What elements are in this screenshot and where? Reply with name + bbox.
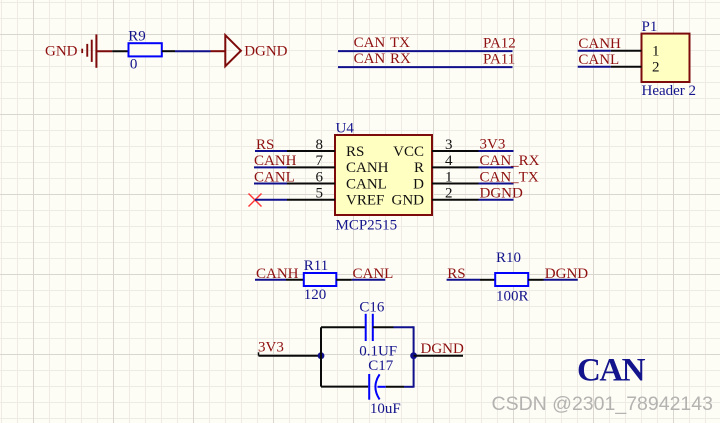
value 10uF	[370, 401, 401, 417]
net label 3V3	[480, 137, 506, 153]
net label CANL	[353, 266, 394, 282]
wire	[373, 326, 394, 328]
pin 7 of U4	[287, 153, 335, 169]
svg-text:CANH: CANH	[346, 160, 389, 176]
pin name VREF	[346, 193, 384, 209]
op-amp U1 body (U4 MCP2515)	[335, 135, 432, 215]
svg-text:2: 2	[445, 186, 453, 202]
svg-text:R9: R9	[128, 28, 146, 44]
wire	[352, 279, 386, 281]
svg-text:10uF: 10uF	[370, 401, 401, 417]
svg-text:CANL: CANL	[578, 52, 619, 68]
svg-text:DGND: DGND	[244, 44, 287, 60]
label C17	[368, 358, 394, 374]
svg-text:PA12: PA12	[483, 35, 516, 51]
pin name R	[414, 160, 424, 176]
svg-text:120: 120	[304, 287, 327, 303]
power port GND	[45, 34, 112, 67]
net label CANH	[256, 266, 299, 282]
svg-text:1: 1	[445, 169, 453, 185]
wire	[255, 279, 286, 281]
pin name VCC	[393, 144, 424, 160]
svg-text:5: 5	[316, 186, 324, 202]
svg-text:CAN: CAN	[354, 35, 386, 51]
label R10	[496, 250, 521, 266]
svg-text:CANL: CANL	[346, 177, 387, 193]
net label DGND	[480, 185, 523, 201]
pin 2 of P1	[611, 59, 660, 75]
pin name CANH	[346, 160, 389, 176]
svg-text:DGND: DGND	[480, 185, 523, 201]
net label CANH	[578, 36, 621, 52]
svg-text:VCC: VCC	[393, 144, 424, 160]
resistor R1 pin left (R9)	[112, 50, 128, 52]
svg-text:R10: R10	[496, 250, 521, 266]
net label RS	[447, 266, 465, 282]
svg-text:6: 6	[316, 169, 324, 185]
svg-text:3V3: 3V3	[480, 137, 506, 153]
svg-text:2: 2	[652, 59, 660, 75]
svg-text:VREF: VREF	[346, 193, 384, 209]
svg-text:RS: RS	[346, 144, 364, 160]
label U4	[336, 121, 355, 137]
pin 4 of U4	[432, 153, 479, 169]
value 0	[130, 57, 138, 73]
net label CAN_TX	[354, 35, 411, 51]
svg-text:C17: C17	[368, 358, 394, 374]
wire	[394, 326, 414, 328]
wire CAN_RX	[338, 66, 513, 68]
svg-text:CANL: CANL	[353, 266, 394, 282]
svg-text:CAN: CAN	[577, 353, 646, 389]
svg-text:Header 2: Header 2	[642, 83, 697, 99]
svg-text:CAN: CAN	[354, 51, 386, 67]
wire	[544, 279, 578, 281]
power port DGND	[211, 35, 288, 66]
svg-text:R: R	[414, 160, 424, 176]
capacitor C16	[366, 314, 373, 341]
connector P1	[642, 34, 690, 82]
wire	[479, 199, 514, 201]
wire	[479, 183, 514, 185]
svg-text:TX: TX	[390, 35, 410, 51]
wire	[447, 279, 480, 281]
resistor R11	[304, 273, 337, 286]
watermark	[492, 393, 713, 415]
wire	[255, 150, 287, 152]
pin name GND	[392, 193, 425, 209]
svg-text:CAN_RX: CAN_RX	[480, 153, 540, 169]
pin 8 of U4	[287, 137, 335, 153]
net label CAN_RX	[354, 51, 411, 67]
svg-text:GND: GND	[45, 44, 78, 60]
resistor R11 pin left	[286, 279, 304, 281]
wire	[175, 50, 211, 52]
wire	[479, 150, 514, 152]
svg-text:R11: R11	[304, 258, 328, 274]
net label PA11	[483, 51, 515, 67]
svg-text:DGND: DGND	[421, 341, 464, 357]
pin 6 of U4	[287, 169, 335, 185]
svg-text:C16: C16	[359, 299, 385, 315]
svg-text:CANH: CANH	[578, 36, 621, 52]
svg-text:4: 4	[445, 153, 453, 169]
svg-text:7: 7	[316, 153, 324, 169]
resistor R9	[129, 43, 162, 56]
wire	[254, 183, 287, 185]
svg-text:MCP2515: MCP2515	[336, 217, 398, 233]
wire	[321, 386, 368, 388]
value 120	[304, 287, 327, 303]
svg-text:0: 0	[130, 57, 138, 73]
pin name RS	[346, 144, 364, 160]
net label DGND	[545, 266, 588, 282]
pin name D	[413, 177, 424, 193]
pin 2 of U4	[432, 186, 479, 202]
pin 5 of U4	[287, 186, 335, 202]
label P1	[642, 19, 658, 35]
capacitor C17	[369, 374, 386, 400]
net label CANL	[578, 52, 619, 68]
pin name CANL	[346, 177, 387, 193]
label MCP2515	[336, 217, 398, 233]
pin 3 of U4	[432, 137, 479, 153]
svg-text:8: 8	[316, 137, 324, 153]
wire	[259, 352, 322, 355]
wire	[386, 386, 404, 388]
net label PA12	[483, 35, 516, 51]
wire	[321, 326, 366, 328]
svg-text:CAN_TX: CAN_TX	[480, 169, 539, 185]
net label CAN_TX	[480, 169, 539, 185]
svg-text:3V3: 3V3	[258, 339, 284, 355]
svg-text:3: 3	[445, 137, 453, 153]
net label CAN_RX	[480, 153, 540, 169]
net label CANH	[254, 153, 297, 169]
wire CAN_TX	[338, 50, 513, 52]
resistor R10 pin right	[528, 279, 543, 281]
wire	[255, 199, 287, 201]
wire	[413, 326, 415, 387]
svg-text:CSDN @2301_78942143: CSDN @2301_78942143	[492, 393, 713, 415]
pin 1 of P1	[611, 43, 660, 59]
net label DGND	[421, 341, 464, 357]
wire	[578, 50, 611, 52]
wire	[254, 166, 287, 168]
resistor R10	[495, 273, 528, 286]
junction node left	[318, 352, 325, 359]
value 0.1UF	[359, 344, 397, 360]
label C16	[359, 299, 385, 315]
svg-text:100R: 100R	[496, 289, 529, 305]
resistor R10 pin left	[480, 279, 495, 281]
label Header 2	[642, 83, 697, 99]
wire	[404, 386, 414, 388]
title CAN	[577, 353, 646, 389]
svg-text:D: D	[413, 177, 424, 193]
wire	[479, 166, 514, 168]
label R9	[128, 28, 146, 44]
no-connect cross	[249, 194, 262, 207]
wire	[578, 66, 611, 68]
net label CANL	[254, 169, 295, 185]
value 100R	[496, 289, 529, 305]
svg-text:RX: RX	[390, 51, 411, 67]
wire	[320, 327, 322, 386]
net label 3V3	[258, 339, 284, 355]
svg-text:GND: GND	[392, 193, 425, 209]
junction node right	[410, 352, 417, 359]
label R11	[304, 258, 328, 274]
wire	[414, 355, 463, 357]
svg-text:P1: P1	[642, 19, 658, 35]
svg-text:PA11: PA11	[483, 51, 515, 67]
resistor R9 pin right	[162, 50, 175, 52]
svg-text:1: 1	[652, 43, 660, 59]
pin 1 of U4	[432, 169, 479, 185]
svg-text:DGND: DGND	[545, 266, 588, 282]
resistor R11 pin right	[336, 279, 352, 281]
net label RS	[256, 137, 274, 153]
